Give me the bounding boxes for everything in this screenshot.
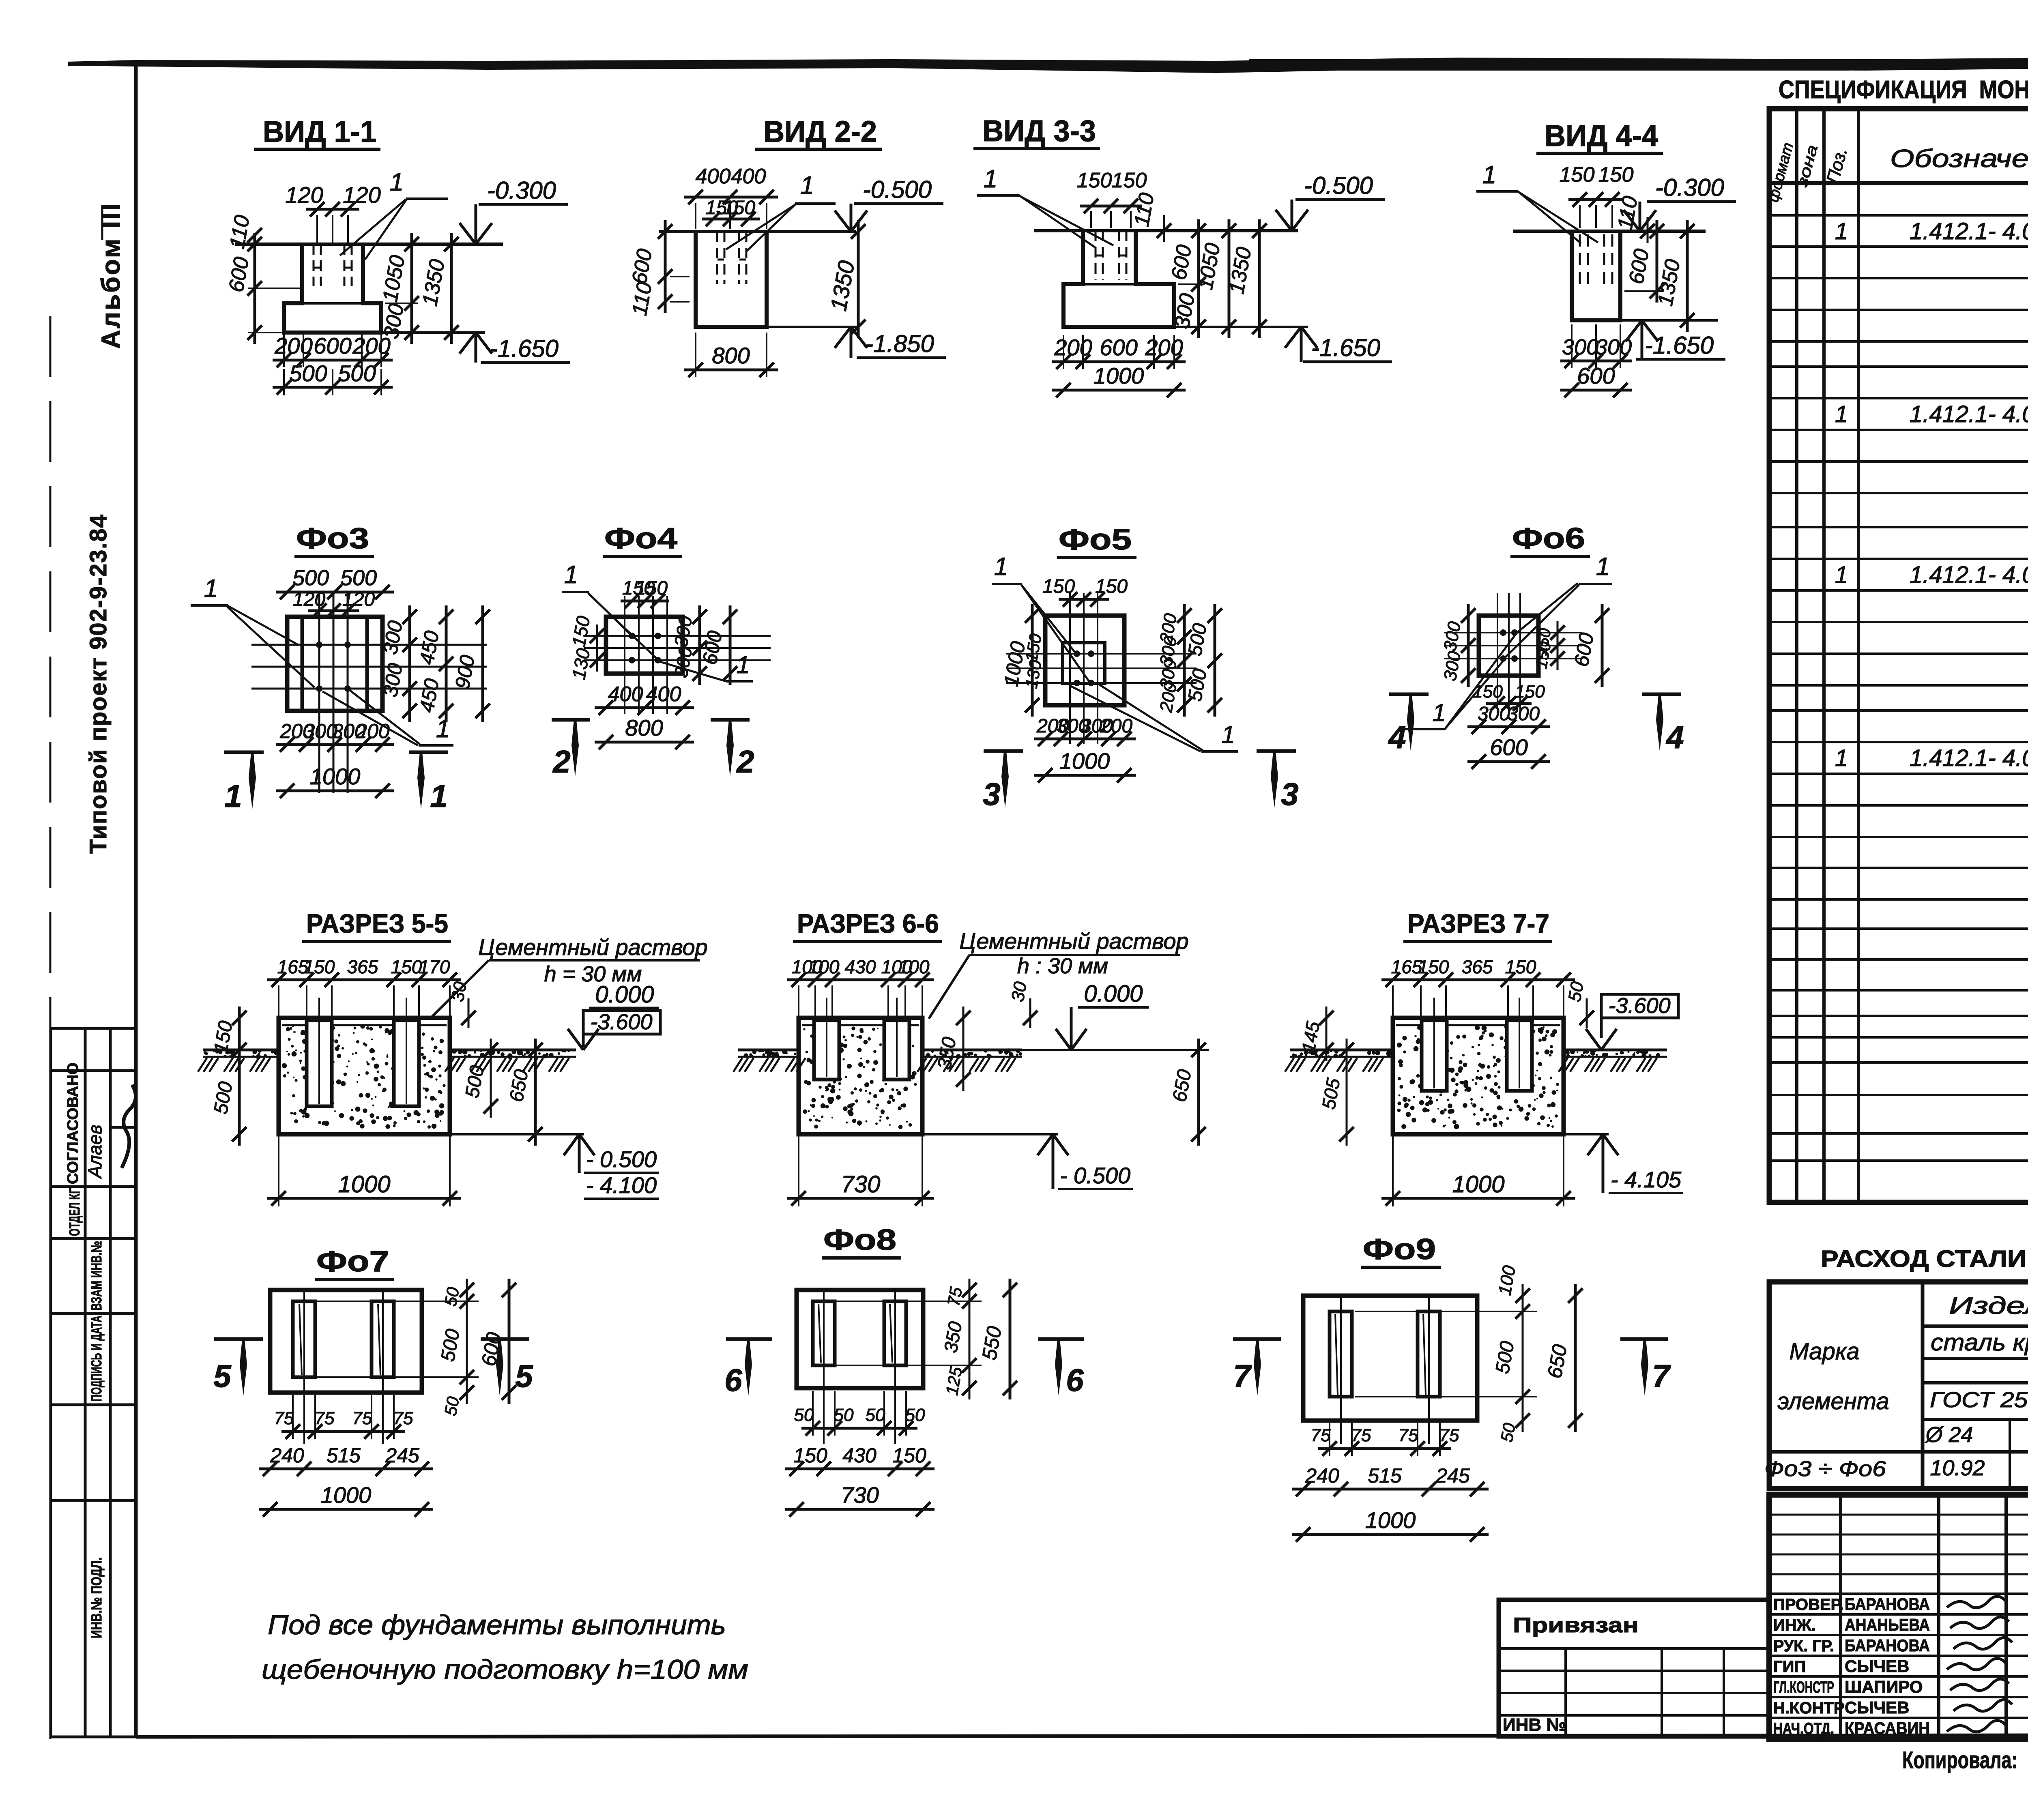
svg-text:Ø 24: Ø 24: [1925, 1423, 1973, 1447]
svg-text:245: 245: [1435, 1464, 1470, 1487]
svg-text:170: 170: [419, 956, 450, 977]
view 3-3 anchor bolts dashed: [1095, 231, 1097, 280]
svg-text:Под все фундаменты выполнить: Под все фундаменты выполнить: [268, 1610, 726, 1640]
section 6-6 dim 650 right: [1197, 1039, 1200, 1146]
section 7-7 anchor slot: [1422, 1020, 1447, 1091]
svg-text:3: 3: [1281, 776, 1298, 812]
svg-text:50: 50: [1497, 1421, 1519, 1444]
svg-text:- 4.105: - 4.105: [1611, 1167, 1682, 1192]
svg-text:75: 75: [1399, 1425, 1418, 1445]
plan Fo9 bottom dims 75 75 75 75: [1318, 1447, 1451, 1450]
svg-text:0.000: 0.000: [595, 981, 654, 1008]
view 1-1 leader 1: [365, 198, 408, 260]
svg-text:5: 5: [213, 1358, 232, 1394]
svg-text:300: 300: [1595, 335, 1632, 359]
section 6-6 dim 350 rotated: [962, 1007, 965, 1091]
svg-text:h : 30 мм: h : 30 мм: [1017, 954, 1108, 978]
svg-text:- 0.500: - 0.500: [1060, 1163, 1130, 1188]
plan Fo3 section marker 1 right: [409, 751, 448, 754]
svg-text:ВИД 4-4: ВИД 4-4: [1545, 119, 1658, 152]
svg-text:-1.650: -1.650: [490, 335, 559, 362]
privyazan box grid: [1499, 1647, 1769, 1650]
view 2-2 anchor bolts dashed: [716, 232, 718, 284]
svg-text:200: 200: [355, 720, 390, 743]
view 4-4 bottom dim 300 300: [1560, 360, 1632, 363]
plan Fo9 section marker 7 left: [1233, 1337, 1281, 1341]
view 1-1 anchor bolts dashed: [313, 244, 315, 286]
plan Fo7 bottom dims 75 75 75 75: [281, 1430, 405, 1433]
section 5-5 anchor slot: [307, 1020, 332, 1106]
svg-text:150: 150: [1505, 956, 1536, 977]
svg-text:ГЛ.КОНСТР: ГЛ.КОНСТР: [1773, 1678, 1834, 1696]
svg-text:1000: 1000: [310, 764, 361, 789]
view 3-3 leader 1: [1018, 195, 1095, 247]
plan Fo5 right dims 500 500: [1214, 604, 1216, 717]
plan Fo7 slot right: [372, 1301, 394, 1377]
svg-text:1.412.1- 4.060: 1.412.1- 4.060: [1910, 401, 2028, 427]
svg-text:1: 1: [1221, 721, 1235, 748]
svg-text:БАРАНОВА: БАРАНОВА: [1845, 1636, 1930, 1655]
svg-text:150: 150: [723, 197, 755, 219]
section 5-5 anchor slot: [394, 1020, 419, 1106]
plan Fo4 section marker 2 right: [711, 718, 750, 722]
view 2-2 top dim 400 400: [684, 196, 778, 199]
section 6-6 anchor slot: [814, 1020, 839, 1080]
svg-text:300: 300: [1478, 703, 1510, 725]
svg-text:Альбом III: Альбом III: [96, 202, 125, 349]
section 6-6 top dim 100 100 430 100 100: [787, 979, 934, 981]
svg-text:200: 200: [1054, 335, 1092, 360]
view 1-1 ground line: [235, 243, 503, 246]
title block signature squiggle: [1947, 1720, 2006, 1732]
section 5-5 left dims 150 500: [238, 1007, 241, 1146]
plan Fo3 outline: [287, 617, 382, 711]
plan Fo3 leader 1 bottom right: [350, 690, 420, 744]
plan Fo5 section marker 3 right: [1257, 749, 1296, 753]
svg-text:600: 600: [1100, 335, 1137, 360]
svg-text:1000: 1000: [1452, 1171, 1504, 1198]
svg-text:430: 430: [842, 1444, 877, 1467]
svg-text:1: 1: [1835, 218, 1848, 245]
svg-text:Фо8: Фо8: [823, 1224, 896, 1256]
svg-text:200: 200: [352, 333, 390, 358]
svg-text:0.000: 0.000: [1084, 981, 1143, 1007]
svg-text:ПОДПИСЬ И ДАТА: ПОДПИСЬ И ДАТА: [88, 1316, 105, 1401]
svg-text:800: 800: [625, 715, 663, 740]
svg-text:6: 6: [724, 1362, 742, 1398]
svg-text:-1.850: -1.850: [865, 330, 934, 357]
view 2-2 left dim 600 110: [664, 220, 667, 313]
svg-text:-0.300: -0.300: [1655, 174, 1724, 201]
svg-text:1: 1: [1432, 699, 1446, 726]
svg-text:СПЕЦИФИКАЦИЯ МОНОЛИТНЫХ ФУНД: СПЕЦИФИКАЦИЯ МОНОЛИТНЫХ ФУНДАМЕНТОВ Фо3 …: [1779, 76, 2028, 104]
svg-text:Фо3 ÷ Фо6: Фо3 ÷ Фо6: [1764, 1457, 1886, 1481]
svg-text:600: 600: [314, 333, 351, 358]
svg-text:245: 245: [385, 1444, 419, 1467]
plan Fo7 section marker 5 right: [481, 1337, 529, 1341]
svg-text:150: 150: [1095, 576, 1128, 597]
plan Fo9 section marker 7 right: [1620, 1337, 1668, 1341]
svg-text:150: 150: [1560, 163, 1595, 187]
section 6-6 floor left: [738, 1049, 799, 1052]
plan Fo4 leader 1: [588, 593, 631, 635]
plan Fo6 bottom dim 150 150: [1486, 702, 1532, 705]
steel table lines: [1921, 1282, 1925, 1489]
spec table row lines: [1769, 214, 2028, 217]
svg-text:4: 4: [1388, 719, 1406, 755]
svg-text:Фо9: Фо9: [1363, 1233, 1436, 1266]
view 2-2 bottom line extension: [767, 326, 858, 328]
privyazan box border: [1499, 1600, 1769, 1736]
svg-text:50: 50: [441, 1395, 463, 1417]
svg-text:КРАСАВИН: КРАСАВИН: [1845, 1719, 1930, 1738]
svg-text:150: 150: [892, 1444, 926, 1467]
svg-text:4: 4: [1665, 719, 1684, 755]
svg-text:150: 150: [1077, 169, 1112, 192]
section 7-7 concrete block: [1393, 1018, 1564, 1134]
plan Fo8 bottom dims 150 430 150: [785, 1468, 935, 1470]
svg-text:щебеночную подготовку h=100 мм: щебеночную подготовку h=100 мм: [262, 1654, 748, 1685]
svg-text:600: 600: [1490, 734, 1527, 760]
section 5-5 bottom dim 1000: [267, 1197, 461, 1200]
svg-text:1000: 1000: [1093, 363, 1144, 388]
plan Fo3 top dim 120 120: [308, 610, 359, 612]
svg-text:515: 515: [1368, 1464, 1402, 1487]
svg-text:Фо7: Фо7: [316, 1245, 389, 1278]
svg-text:РАЗРЕЗ 5-5: РАЗРЕЗ 5-5: [306, 908, 448, 938]
svg-text:730: 730: [841, 1482, 879, 1508]
section 6-6 bottom dim 730: [787, 1197, 934, 1200]
svg-text:7: 7: [1652, 1358, 1671, 1394]
title block empty top rows left: [1769, 1514, 2028, 1516]
svg-text:1: 1: [430, 778, 447, 814]
plan Fo4 bolt points: [629, 633, 635, 639]
view 1-1 top dim 120 120: [306, 208, 359, 211]
plan Fo3 bolt points: [316, 642, 322, 648]
plan Fo7 bottom dim 1000: [259, 1508, 433, 1511]
title block signature squiggle: [1953, 1638, 2012, 1649]
svg-text:СОГЛАСОВАНО: СОГЛАСОВАНО: [64, 1062, 82, 1184]
svg-text:ГОСТ 2590-71*: ГОСТ 2590-71*: [1930, 1388, 2028, 1412]
svg-text:75: 75: [315, 1408, 335, 1428]
view 1-1 bottom dim 500 500: [273, 386, 393, 389]
view 3-3 bottom dim 200 600 200: [1052, 361, 1186, 363]
svg-text:-0.300: -0.300: [487, 177, 556, 204]
svg-text:150: 150: [1473, 682, 1503, 702]
plan Fo4 grid lines: [624, 596, 625, 714]
svg-text:75: 75: [1311, 1425, 1331, 1445]
plan Fo4 leader 1 bottom right: [660, 662, 726, 681]
svg-text:БАРАНОВА: БАРАНОВА: [1845, 1595, 1930, 1614]
svg-text:120: 120: [342, 589, 375, 610]
view 4-4 top dim 150 150: [1568, 198, 1624, 201]
svg-text:75: 75: [944, 1286, 966, 1308]
svg-text:сталь круглая: сталь круглая: [1931, 1329, 2028, 1356]
svg-text:1: 1: [564, 561, 578, 589]
plan Fo8 right dims 75 350 550 125: [836, 1301, 982, 1302]
plan Fo5 left dims 1000 150 130: [1031, 604, 1034, 717]
svg-text:30: 30: [1008, 980, 1031, 1003]
svg-text:800: 800: [712, 343, 750, 368]
svg-text:75: 75: [352, 1408, 372, 1428]
view 4-4 leader 1: [1517, 191, 1581, 243]
view 3-3 right dims 600 1050 1350 300: [1197, 219, 1200, 338]
svg-text:ШАПИРО: ШАПИРО: [1845, 1677, 1923, 1696]
view 2-2 leader 1: [746, 203, 797, 251]
svg-text:2: 2: [552, 744, 570, 779]
plan Fo5 leader 1 bottom right: [1099, 685, 1203, 750]
view 1-1 bottom line extension: [381, 331, 485, 334]
plan Fo5 bolt points: [1074, 650, 1080, 657]
svg-text:200: 200: [1100, 715, 1132, 737]
svg-text:365: 365: [347, 956, 378, 977]
svg-text:75: 75: [274, 1408, 294, 1428]
svg-text:50: 50: [441, 1286, 463, 1308]
spec table header row: [1769, 181, 2028, 185]
svg-text:ВЗАМ ИНВ.№: ВЗАМ ИНВ.№: [88, 1241, 105, 1311]
sheet outer left dashed edge: [49, 316, 52, 1762]
title block signature squiggle: [1950, 1617, 2009, 1628]
svg-text:120: 120: [293, 589, 325, 610]
svg-text:75: 75: [1439, 1425, 1459, 1445]
svg-text:150: 150: [1042, 576, 1075, 597]
svg-text:500: 500: [292, 566, 329, 590]
title block signature squiggle: [1950, 1679, 2009, 1690]
section 6-6 cement layer line: [802, 1024, 919, 1026]
view 4-4 body outline: [1572, 231, 1620, 320]
svg-text:- 0.500: - 0.500: [586, 1146, 657, 1172]
title block signature squiggle: [1953, 1700, 2012, 1711]
svg-text:ВИД 2-2: ВИД 2-2: [763, 115, 877, 148]
spec table column lines: [1795, 109, 1798, 1202]
view 1-1 left dim 110 600: [253, 233, 256, 344]
plan Fo6 section marker 4 right: [1642, 693, 1681, 696]
svg-text:7: 7: [1233, 1358, 1252, 1394]
section 5-5 right dims 500 650: [490, 1039, 492, 1118]
svg-text:1: 1: [390, 168, 404, 196]
svg-text:150: 150: [1418, 956, 1449, 977]
plan Fo5 top dim 150 150: [1059, 598, 1109, 601]
svg-text:РАЗРЕЗ 6-6: РАЗРЕЗ 6-6: [797, 908, 939, 938]
plan Fo8 bottom dims 50 50 50 50: [801, 1427, 917, 1430]
svg-text:Алаев: Алаев: [84, 1125, 105, 1179]
svg-text:ИНВ №: ИНВ №: [1503, 1715, 1566, 1735]
svg-text:1: 1: [1835, 401, 1848, 427]
svg-text:1: 1: [1835, 562, 1848, 588]
plan Fo9 bottom dims 240 515 245: [1292, 1488, 1489, 1491]
svg-text:1: 1: [1835, 745, 1848, 771]
view 3-3 bottom dim 1000: [1052, 389, 1186, 392]
view 2-2 right dim 1350: [857, 220, 860, 338]
svg-text:1000: 1000: [1059, 748, 1110, 774]
svg-text:50: 50: [794, 1405, 814, 1425]
svg-text:120: 120: [343, 182, 380, 208]
plan Fo7 right dims 50 500 600 50: [316, 1301, 479, 1302]
plan Fo3 grid lines: [318, 592, 320, 793]
svg-text:Копировала: Коршунова: Копировала: Коршунова: [1902, 1747, 2028, 1773]
svg-text:Н.КОНТР: Н.КОНТР: [1773, 1699, 1845, 1717]
svg-text:1000: 1000: [1365, 1507, 1416, 1533]
svg-text:240: 240: [270, 1444, 304, 1467]
svg-text:500: 500: [289, 361, 327, 386]
view 2-2 bottom dim 800: [684, 369, 778, 371]
svg-text:100: 100: [898, 956, 930, 977]
plan Fo5 bottom dim 1000: [1034, 774, 1136, 777]
svg-text:-3.600: -3.600: [590, 1010, 652, 1034]
title block sheet name: [1768, 1679, 1770, 1682]
view 3-3 ground line: [1034, 229, 1298, 232]
plan Fo8 slot left: [813, 1301, 835, 1365]
svg-text:400: 400: [731, 165, 766, 188]
svg-text:365: 365: [1462, 956, 1493, 977]
svg-text:150: 150: [1598, 163, 1634, 187]
svg-text:-0.500: -0.500: [863, 176, 932, 203]
plan Fo3 bottom dim 200 300 300 200: [276, 743, 394, 746]
plan Fo5 grid lines: [1069, 593, 1071, 744]
plan Fo3 right dim 450 450: [445, 605, 448, 722]
svg-text:5: 5: [515, 1358, 533, 1394]
svg-text:Фо4: Фо4: [604, 522, 677, 555]
plan Fo5 outline: [1045, 616, 1124, 705]
svg-text:Цементный раствор: Цементный раствор: [959, 928, 1188, 954]
plan Fo6 bottom dim 300 300: [1467, 725, 1550, 728]
plan Fo3 leader 1 left: [227, 605, 298, 645]
view 4-4 bottom dim 600: [1560, 389, 1632, 392]
view 2-2 top dim 150 150: [702, 218, 760, 221]
svg-text:400: 400: [608, 682, 643, 706]
plan Fo9 slot right: [1418, 1311, 1440, 1397]
svg-text:ВИД 1-1: ВИД 1-1: [263, 115, 376, 148]
plan Fo9 slot left: [1330, 1311, 1352, 1397]
section 7-7 bottom dim 1000: [1381, 1197, 1575, 1200]
plan Fo7 slot left: [293, 1301, 315, 1377]
svg-text:РАСХОД СТАЛИ НА ОДИН ЭЛЕМЕНТ,: РАСХОД СТАЛИ НА ОДИН ЭЛЕМЕНТ, КГ: [1821, 1246, 2028, 1272]
section 5-5 floor right: [450, 1049, 576, 1052]
view 3-3 body outline: [1063, 231, 1174, 327]
svg-text:1000: 1000: [321, 1482, 372, 1508]
svg-text:515: 515: [327, 1444, 361, 1467]
svg-text:Обозначение: Обозначение: [1890, 145, 2028, 173]
plan Fo6 leader 1 bottom left: [1445, 661, 1503, 729]
title block outer border: [1769, 1495, 2028, 1739]
section 7-7 anchor slot: [1507, 1020, 1532, 1091]
section 6-6 anchor slot: [884, 1020, 909, 1080]
plan Fo5 leader 1: [1021, 585, 1075, 652]
svg-text:АНАНЬЕВА: АНАНЬЕВА: [1845, 1615, 1930, 1634]
plan Fo7 bottom dims 240 515 245: [259, 1468, 433, 1470]
section 6-6 concrete block: [799, 1018, 922, 1134]
section 5-5 floor left: [203, 1049, 279, 1052]
svg-text:50: 50: [834, 1405, 854, 1425]
plan Fo8 bottom dim 730: [785, 1508, 935, 1511]
svg-text:1: 1: [736, 651, 750, 678]
plan Fo5 right dims 200 300 300 200: [1183, 604, 1186, 717]
section 5-5 cement layer line: [282, 1024, 447, 1026]
section 5-5 top dim 165 150 365 150 170: [267, 979, 461, 981]
svg-text:элемента: элемента: [1777, 1388, 1889, 1414]
svg-text:ПРОВЕР.: ПРОВЕР.: [1773, 1596, 1843, 1614]
svg-text:50: 50: [866, 1405, 885, 1425]
view 4-4 anchor bolts dashed: [1579, 234, 1581, 284]
svg-text:-1.650: -1.650: [1311, 334, 1380, 361]
title block vertical lines left part: [1839, 1495, 1842, 1739]
section 7-7 top dim 165 150 365 150 170: [1381, 979, 1575, 981]
plan Fo8 section marker 6 right: [1038, 1337, 1084, 1341]
plan Fo5 pedestal inner outline: [1063, 643, 1105, 683]
svg-text:СЫЧЕВ: СЫЧЕВ: [1845, 1698, 1909, 1717]
plan Fo9 outline: [1303, 1296, 1477, 1421]
plan Fo9 bottom dim 1000: [1292, 1533, 1489, 1536]
svg-text:Фо5: Фо5: [1059, 524, 1132, 556]
view 1-1 pedestal outline: [284, 244, 381, 333]
plan Fo3 section marker 1 left: [224, 751, 264, 754]
view 4-4 bottom line extension: [1620, 319, 1718, 322]
plan Fo3 right dim 900: [481, 605, 484, 722]
plan Fo3 pedestal edges: [301, 617, 304, 711]
svg-text:150: 150: [1515, 682, 1545, 702]
plan Fo9 right dims 100 500 650 50: [1355, 1311, 1537, 1312]
svg-text:Фо3: Фо3: [296, 522, 369, 555]
view 2-2 ground line: [659, 230, 856, 233]
section 7-7 floor right: [1564, 1049, 1667, 1052]
svg-text:1: 1: [800, 172, 814, 200]
svg-text:150: 150: [635, 577, 668, 599]
plan Fo4 bottom dim 800: [595, 741, 694, 744]
section 7-7 left dims 145 505: [1326, 1007, 1328, 1061]
svg-text:1000: 1000: [338, 1171, 390, 1198]
svg-text:ИНВ.№ ПОДЛ.: ИНВ.№ ПОДЛ.: [88, 1557, 105, 1638]
svg-text:Фо6: Фо6: [1512, 522, 1585, 555]
svg-text:200: 200: [1145, 335, 1183, 360]
plan Fo8 slot right: [884, 1301, 906, 1365]
title block signature rows: [1769, 1592, 2028, 1595]
svg-text:Марка: Марка: [1789, 1338, 1859, 1365]
plan Fo6 bolt points: [1500, 629, 1506, 636]
svg-text:Привязан: Привязан: [1513, 1614, 1639, 1637]
frame top scan smear: [68, 57, 2028, 73]
svg-text:1: 1: [994, 553, 1008, 581]
plan Fo3 right dim 300 300: [408, 605, 411, 722]
section 6-6 floor right: [922, 1049, 1022, 1052]
plan Fo4 right dims 300 300 600: [698, 605, 701, 685]
view 4-4 right dims 600 1350: [1656, 220, 1658, 303]
svg-text:1.412.1- 4.060: 1.412.1- 4.060: [1910, 218, 2028, 245]
plan Fo3 bottom dim 1000: [276, 790, 394, 792]
svg-text:150: 150: [391, 956, 422, 977]
svg-text:НАЧ.ОТД.: НАЧ.ОТД.: [1773, 1720, 1834, 1738]
svg-text:3: 3: [983, 776, 1000, 812]
svg-text:30: 30: [447, 980, 470, 1003]
plan Fo6 section marker 4 left: [1389, 693, 1429, 696]
sidebar signature squiggle: [122, 1085, 136, 1168]
svg-text:150: 150: [793, 1444, 827, 1467]
svg-text:730: 730: [841, 1171, 881, 1198]
steel table outer border: [1769, 1282, 2028, 1489]
svg-text:РАЗРЕЗ 7-7: РАЗРЕЗ 7-7: [1407, 908, 1549, 938]
spec table outer border: [1769, 109, 2028, 1202]
section 7-7 level -3.600 boxed: [1601, 994, 1678, 1018]
view 3-3 top dim 150 150: [1080, 205, 1142, 208]
svg-text:500: 500: [338, 361, 376, 386]
svg-text:200: 200: [274, 333, 312, 358]
svg-text:6: 6: [1066, 1362, 1084, 1398]
svg-text:50: 50: [1564, 980, 1588, 1003]
svg-text:240: 240: [1305, 1464, 1339, 1487]
view 1-1 right dims 300 1050 1350: [410, 233, 413, 344]
svg-text:50: 50: [905, 1405, 925, 1425]
frame left vertical line: [134, 61, 138, 1737]
plan Fo4 outline: [606, 617, 683, 674]
